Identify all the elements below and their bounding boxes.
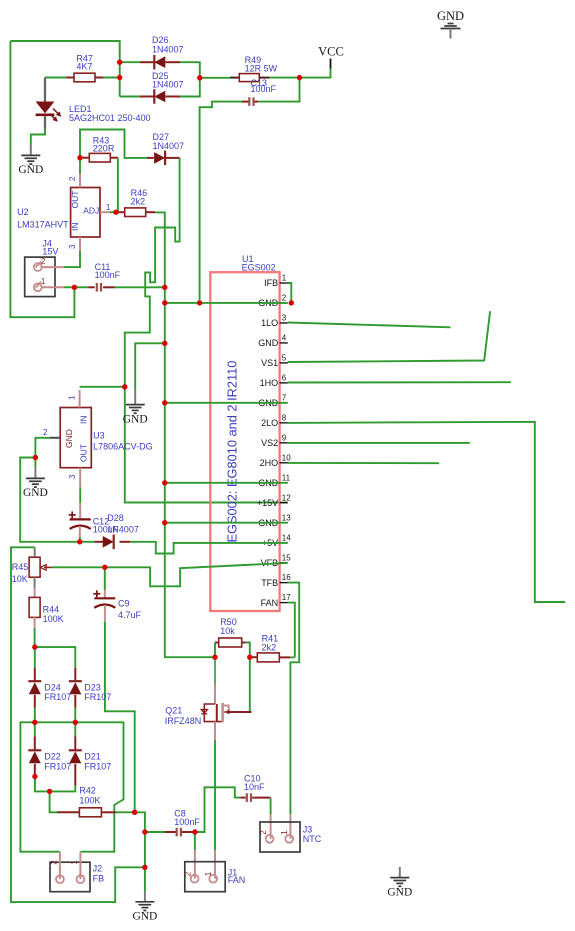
svg-text:D23: D23: [84, 682, 101, 692]
svg-text:1HO: 1HO: [260, 378, 279, 388]
svg-text:GND: GND: [23, 487, 48, 499]
svg-text:OUT: OUT: [70, 191, 80, 209]
svg-text:ADJ: ADJ: [83, 205, 99, 215]
svg-text:GND: GND: [437, 9, 464, 23]
svg-text:2HO: 2HO: [260, 458, 279, 468]
svg-text:1N4007: 1N4007: [107, 525, 139, 535]
svg-text:1N4007: 1N4007: [152, 80, 184, 90]
svg-text:Q21: Q21: [165, 706, 182, 716]
svg-text:FR107: FR107: [84, 692, 111, 702]
svg-text:FR107: FR107: [84, 761, 111, 771]
svg-text:2k2: 2k2: [262, 643, 277, 653]
svg-text:100K: 100K: [43, 614, 64, 624]
svg-text:GND: GND: [258, 338, 279, 348]
svg-text:15V: 15V: [42, 247, 58, 257]
svg-text:4K7: 4K7: [76, 62, 92, 72]
svg-text:VS1: VS1: [261, 358, 278, 368]
svg-text:17: 17: [282, 593, 291, 602]
svg-text:L7806ACV-DG: L7806ACV-DG: [93, 442, 153, 452]
svg-text:IN: IN: [70, 223, 80, 232]
svg-text:D21: D21: [84, 752, 101, 762]
svg-text:1: 1: [41, 277, 46, 286]
svg-text:10: 10: [282, 453, 291, 462]
svg-text:U3: U3: [93, 431, 105, 441]
svg-text:3: 3: [68, 244, 77, 249]
svg-text:100nF: 100nF: [95, 270, 121, 280]
svg-text:5: 5: [282, 354, 287, 363]
svg-text:12: 12: [282, 493, 291, 502]
svg-text:IRFZ48N: IRFZ48N: [165, 716, 202, 726]
svg-text:OUT: OUT: [79, 444, 89, 462]
svg-text:1: 1: [204, 871, 213, 876]
svg-text:10K: 10K: [12, 574, 28, 584]
svg-text:100nF: 100nF: [174, 817, 200, 827]
svg-text:D26: D26: [152, 35, 169, 45]
svg-text:LM317AHVT: LM317AHVT: [17, 220, 69, 230]
svg-text:D24: D24: [44, 682, 61, 692]
svg-text:1: 1: [68, 395, 77, 400]
svg-text:3: 3: [282, 314, 287, 323]
svg-text:D22: D22: [44, 752, 61, 762]
svg-text:2: 2: [282, 294, 287, 303]
svg-text:100K: 100K: [79, 795, 100, 805]
svg-text:GND: GND: [64, 429, 74, 448]
svg-text:2: 2: [41, 257, 46, 266]
svg-text:10k: 10k: [220, 626, 235, 636]
svg-text:1: 1: [106, 203, 111, 212]
svg-text:NTC: NTC: [303, 834, 322, 844]
svg-text:1: 1: [70, 860, 79, 865]
svg-text:13: 13: [282, 513, 291, 522]
svg-text:GND: GND: [18, 164, 43, 176]
svg-text:3: 3: [68, 474, 77, 479]
svg-text:2: 2: [184, 871, 193, 876]
svg-text:1: 1: [280, 830, 289, 835]
svg-text:6: 6: [282, 373, 287, 382]
svg-text:1LO: 1LO: [261, 318, 278, 328]
svg-text:220R: 220R: [93, 143, 115, 153]
svg-text:1N4007: 1N4007: [153, 141, 185, 151]
svg-text:R45: R45: [12, 562, 29, 572]
svg-text:2k2: 2k2: [131, 196, 146, 206]
svg-text:TFB: TFB: [261, 578, 278, 588]
svg-text:8: 8: [282, 413, 287, 422]
svg-text:11: 11: [282, 473, 291, 482]
svg-text:10nF: 10nF: [244, 782, 265, 792]
svg-text:+15V: +15V: [257, 498, 278, 508]
svg-text:VCC: VCC: [318, 45, 344, 59]
svg-text:C9: C9: [118, 599, 130, 609]
svg-text:1: 1: [282, 274, 287, 283]
svg-text:IN: IN: [79, 416, 89, 425]
svg-text:GND: GND: [387, 886, 412, 898]
svg-text:FR107: FR107: [44, 692, 71, 702]
svg-text:IFB: IFB: [264, 278, 278, 288]
svg-text:R42: R42: [79, 785, 96, 795]
svg-text:FR107: FR107: [44, 761, 71, 771]
svg-text:R44: R44: [43, 604, 60, 614]
svg-text:VS2: VS2: [261, 438, 278, 448]
svg-text:J2: J2: [93, 864, 103, 874]
svg-text:100nF: 100nF: [251, 84, 277, 94]
svg-text:FAN: FAN: [228, 875, 246, 885]
svg-text:4.7uF: 4.7uF: [118, 610, 142, 620]
svg-text:GND: GND: [123, 413, 148, 425]
svg-text:2: 2: [43, 428, 48, 437]
svg-text:D28: D28: [107, 513, 124, 523]
svg-text:FAN: FAN: [261, 598, 279, 608]
svg-text:2: 2: [259, 830, 268, 835]
svg-text:2: 2: [49, 860, 58, 865]
svg-text:16: 16: [282, 573, 291, 582]
svg-text:2LO: 2LO: [261, 418, 278, 428]
svg-text:14: 14: [282, 533, 291, 542]
svg-text:1N4007: 1N4007: [152, 45, 184, 55]
svg-text:U2: U2: [17, 207, 29, 217]
svg-text:GND: GND: [132, 911, 157, 923]
svg-text:4: 4: [282, 334, 287, 343]
svg-text:FB: FB: [93, 874, 105, 884]
svg-text:2: 2: [68, 176, 77, 181]
svg-text:9: 9: [282, 433, 287, 442]
svg-text:5AG2HC01 250-400: 5AG2HC01 250-400: [69, 113, 151, 123]
svg-text:15: 15: [282, 553, 291, 562]
svg-text:EGS002: EGS002: [242, 263, 276, 273]
svg-text:7: 7: [282, 393, 287, 402]
svg-text:12R 5W: 12R 5W: [245, 64, 278, 74]
svg-text:EGS002: EG8010 and 2 IR2110: EGS002: EG8010 and 2 IR2110: [225, 361, 240, 543]
